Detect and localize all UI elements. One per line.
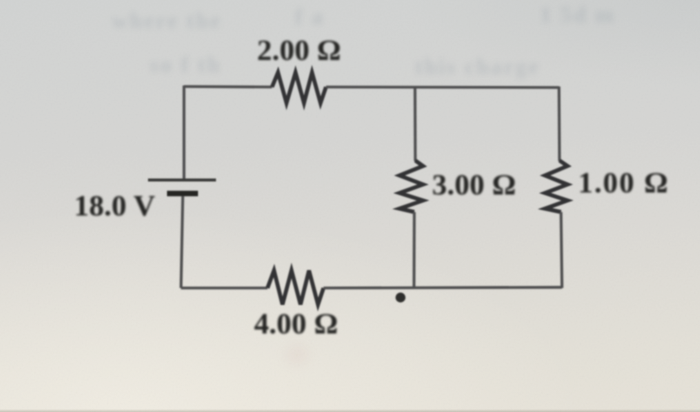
- node dot (junction point): [396, 293, 406, 303]
- wire: left vertical upper (to battery): [183, 86, 186, 180]
- ghost bleed-through text row 2: [150, 52, 221, 78]
- wire: middle branch upper: [414, 87, 417, 162]
- resistor R1 1.00 ohm (right): [545, 161, 568, 213]
- svg-text:18.0 V: 18.0 V: [74, 190, 155, 223]
- resistor R4 4.00 ohm (bottom): [268, 271, 324, 305]
- wire: bottom right segment: [324, 286, 563, 290]
- wire: right vertical upper: [558, 87, 561, 162]
- svg-text:4.00 Ω: 4.00 Ω: [254, 308, 338, 341]
- battery V1 short thick plate (-): [167, 191, 198, 197]
- wire: bottom left segment: [181, 287, 268, 290]
- wire: top right segment: [326, 86, 559, 89]
- wire: right vertical lower: [561, 212, 562, 288]
- svg-text:2.00 Ω: 2.00 Ω: [257, 34, 341, 67]
- resistor R3 3.00 ohm (middle): [400, 161, 424, 213]
- resistor R2 2.00 ohm (top): [272, 73, 326, 104]
- wire: middle branch lower: [413, 212, 416, 288]
- battery V1 long plate (+): [148, 179, 216, 182]
- svg-text:1.00 Ω: 1.00 Ω: [578, 167, 669, 200]
- wire: left vertical lower: [181, 196, 183, 288]
- ghost bleed-through text row 1: [112, 8, 222, 34]
- svg-text:3.00 Ω: 3.00 Ω: [432, 169, 516, 202]
- wire: top left segment: [184, 85, 272, 88]
